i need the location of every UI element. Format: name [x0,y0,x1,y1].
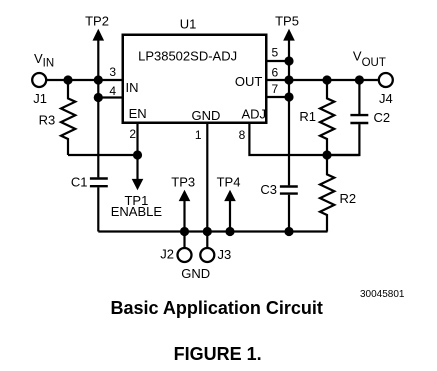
resistor R3 [61,80,75,155]
svg-text:J3: J3 [218,247,232,262]
svg-text:1: 1 [195,128,202,142]
junction dot pin 7 [284,92,293,101]
capacitor C2 top lead [358,80,360,114]
svg-text:8: 8 [239,128,246,142]
wire pin 5 stub [268,60,290,62]
svg-text:IN: IN [126,80,139,95]
junction dot C3 ground [284,227,293,236]
arrowhead TP5 [283,29,295,41]
junction dot TP3 ground [180,227,189,236]
arrowhead TP2 [93,29,105,41]
junction dot TP4 ground [225,227,234,236]
svg-text:6: 6 [272,65,279,79]
junction dot pin 5 [284,56,293,65]
svg-text:ENABLE: ENABLE [111,204,163,219]
op-amp U1 (regulator box outline) [123,35,267,123]
svg-text:4: 4 [109,84,116,98]
svg-text:5: 5 [272,46,279,60]
wire C2 bottom to ADJ node [327,124,359,155]
junction dot ADJ node [322,150,331,159]
svg-text:VOUT: VOUT [353,49,386,70]
wire pin 4 stub [98,96,121,98]
wire C3 bottom to ground rail [288,195,290,232]
junction dot pin 3 [94,75,103,84]
svg-text:C2: C2 [374,110,391,125]
svg-text:Basic Application Circuit: Basic Application Circuit [111,298,323,318]
wire TP3 arrow shaft [183,200,185,232]
svg-text:C3: C3 [260,182,277,197]
arrowhead TP3 [179,190,191,201]
wire VIN J1 to pin 3 [47,79,122,81]
svg-text:2: 2 [129,127,136,141]
svg-text:GND: GND [181,266,210,281]
wire ADJ pin 8 [249,124,359,155]
junction dot pin 4 [94,93,103,102]
capacitor C3 [280,187,298,194]
connector J2 [178,248,192,262]
junction dot EN node [133,150,142,159]
wire TP4 arrow shaft [229,200,231,232]
svg-text:TP4: TP4 [217,174,241,189]
svg-text:TP2: TP2 [85,13,109,28]
wire TP5 vertical shaft [288,39,290,185]
svg-text:TP3: TP3 [171,174,195,189]
connector J1 [32,73,46,87]
svg-text:30045801: 30045801 [360,289,405,300]
wire C1 bottom to ground rail [97,187,99,231]
wire ground rail [98,230,327,232]
svg-text:TP5: TP5 [275,13,299,28]
wire TP2 vertical shaft [97,39,99,80]
connector J4 [379,73,393,87]
svg-text:J1: J1 [33,91,47,106]
capacitor C2 [350,115,368,123]
resistor R2 [320,155,334,232]
svg-text:3: 3 [109,65,116,79]
wire pin 7 stub [268,96,290,98]
svg-text:7: 7 [272,82,279,96]
junction dot R1 top [322,75,331,84]
resistor R1 [320,80,334,155]
svg-text:VIN: VIN [34,51,54,69]
wire R3 bottom to EN node [68,154,138,156]
junction dot R3 top [63,75,72,84]
svg-text:ADJ: ADJ [241,106,266,121]
arrowhead TP4 [224,190,236,201]
wire VIN down to C1 [97,80,99,177]
wire GND pin 1 [206,124,208,232]
svg-text:OUT: OUT [235,74,263,89]
svg-text:R2: R2 [340,191,357,206]
svg-text:LP38502SD-ADJ: LP38502SD-ADJ [138,48,237,63]
svg-text:J4: J4 [379,91,393,106]
junction dot J3 ground [203,227,212,236]
wire J3 stub [206,232,208,248]
svg-text:C1: C1 [71,175,88,190]
connector J3 [200,248,214,262]
svg-text:R3: R3 [39,113,56,128]
junction dot pin 6 [284,75,293,84]
wire J2 stub [183,232,185,248]
arrowhead TP1 [132,179,144,190]
junction dot C2 top [355,75,364,84]
svg-text:FIGURE 1.: FIGURE 1. [174,344,262,364]
svg-text:J2: J2 [160,247,174,262]
svg-text:EN: EN [129,106,147,121]
svg-text:U1: U1 [180,16,197,31]
svg-text:GND: GND [192,108,221,123]
wire TP1 arrow shaft [136,155,138,180]
svg-text:R1: R1 [299,109,316,124]
wire EN pin 2 [136,124,138,155]
capacitor C1 [90,179,108,187]
wire pin 6 to VOUT J4 [268,79,378,81]
